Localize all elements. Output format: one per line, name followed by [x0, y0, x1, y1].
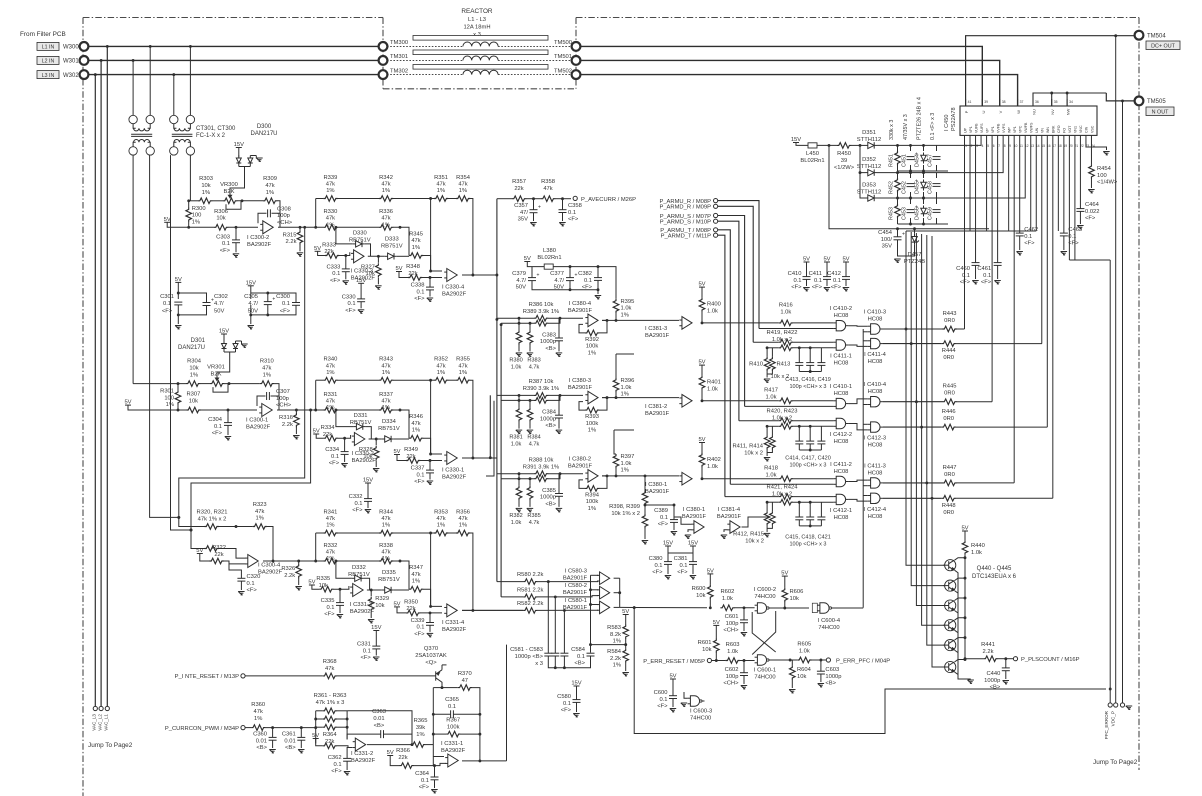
- svg-text:C365: C365: [445, 697, 459, 703]
- svg-text:C389: C389: [654, 508, 668, 514]
- wire bus row1b: [500, 325, 502, 597]
- junction amp2 out ch1: [377, 255, 380, 258]
- wire C580-2 out: [614, 592, 620, 594]
- wire fb mid2 ch3: [337, 560, 379, 562]
- svg-text:R390 3.9k 1%: R390 3.9k 1%: [523, 386, 559, 392]
- svg-text:I C300-1: I C300-1: [246, 418, 268, 424]
- ground R315: [297, 253, 303, 257]
- terminal TM500 circle: [572, 42, 581, 51]
- svg-text:<F>: <F>: [329, 461, 340, 467]
- resistor R441 label: [981, 642, 995, 655]
- capacitor C379: [528, 273, 540, 281]
- wire R9 left ch2: [431, 379, 434, 381]
- junction R9 ch1: [429, 197, 432, 272]
- capacitor C335: [336, 603, 344, 606]
- svg-text:C459: C459: [928, 207, 934, 220]
- resistor R347: [409, 586, 423, 592]
- resistors R387 R390 label: [523, 379, 559, 392]
- svg-text:47k: 47k: [436, 182, 445, 188]
- svg-text:V: V: [998, 110, 1003, 113]
- wire amp3 out ch1: [462, 274, 497, 276]
- svg-text:47k: 47k: [381, 549, 390, 555]
- wire R441 left: [965, 658, 984, 660]
- svg-text:100p <CH> x 3: 100p <CH> x 3: [790, 541, 827, 547]
- svg-text:2SA1037AK: 2SA1037AK: [415, 653, 447, 659]
- junction R9 ch2: [429, 379, 432, 456]
- resistor R360 label: [251, 702, 265, 722]
- wire comp join: [619, 578, 621, 607]
- wire R10 right ch1: [470, 199, 473, 276]
- svg-text:C413, C416, C419: C413, C416, C419: [785, 377, 831, 383]
- svg-text:1.0k: 1.0k: [511, 442, 522, 448]
- supply 5V R350: [393, 601, 400, 607]
- wire rowBb2 g0: [793, 347, 834, 349]
- diode D352: [865, 169, 877, 175]
- svg-text:35V: 35V: [518, 217, 528, 223]
- wire IC450 pin 7 drop: [997, 142, 999, 263]
- and gate C411-1 label: [830, 354, 852, 367]
- ground C382: [595, 296, 601, 300]
- wire g0 c1a-c2a: [849, 325, 868, 328]
- diode D331: [354, 423, 366, 429]
- net label VAC_L1: [104, 714, 109, 731]
- comparator IC381-2 lbl label: [645, 404, 670, 417]
- resistor R453: [895, 204, 901, 218]
- wire R362 l: [316, 718, 323, 720]
- svg-text:R344: R344: [379, 510, 394, 516]
- wire R381 gnd: [518, 422, 520, 429]
- net label DC+ OUT: [1146, 41, 1180, 50]
- resistor R330: [323, 225, 337, 231]
- ground R604: [789, 690, 795, 694]
- svg-text:DAN217U: DAN217U: [250, 131, 277, 137]
- svg-text:D300: D300: [257, 124, 272, 130]
- svg-text:VSC: VSC: [1090, 125, 1094, 133]
- svg-text:9: 9: [1009, 144, 1011, 148]
- svg-text:D301: D301: [191, 338, 206, 344]
- svg-text:C457: C457: [928, 154, 934, 167]
- junction Q442: [964, 597, 967, 600]
- wire fb vert ch1: [316, 199, 324, 228]
- resistor R445 label: [943, 384, 957, 397]
- wire ch3 to R582: [462, 609, 523, 611]
- resistor R329: [368, 597, 374, 611]
- svg-text:74HC00: 74HC00: [754, 594, 775, 600]
- wire fb mid2 ch1: [337, 226, 379, 228]
- svg-text:0R0: 0R0: [943, 416, 954, 422]
- resistor R333 label: [322, 242, 336, 255]
- svg-text:HC08: HC08: [834, 439, 849, 445]
- and gate C411-2: [833, 476, 848, 486]
- capacitor C307: [267, 392, 270, 400]
- wire amp2 out ch1: [368, 255, 385, 257]
- transistor Q370: [436, 665, 447, 688]
- wire Q442 collector: [955, 598, 966, 601]
- inductor bar TM300: [413, 36, 548, 41]
- svg-text:C334: C334: [325, 447, 340, 453]
- svg-text:R300: R300: [192, 206, 206, 212]
- junction C301: [177, 292, 180, 317]
- wire Rc ch2: [178, 409, 186, 411]
- wire R385 top: [529, 479, 531, 486]
- svg-text:R349: R349: [404, 447, 418, 453]
- wire 15V L450: [796, 143, 808, 146]
- wire C460 gnd: [975, 265, 977, 279]
- terminal TM501 circle: [572, 56, 581, 65]
- resistor R601: [714, 639, 720, 653]
- wire Rd2 top g1: [771, 426, 773, 435]
- wire cap trio bus g1: [799, 449, 821, 451]
- svg-text:BA2901F: BA2901F: [645, 489, 670, 495]
- resistor R306: [214, 225, 228, 231]
- resistor R315 label: [283, 232, 297, 245]
- wire dotted TM500: [498, 45, 572, 47]
- svg-text:R383: R383: [527, 357, 540, 363]
- inductor bar TM301: [413, 50, 548, 55]
- resistor R447 label: [943, 465, 957, 478]
- resistor R417: [779, 398, 793, 404]
- junction bus ch2: [489, 456, 492, 459]
- supply 5V R583: [622, 609, 629, 615]
- capacitor C357: [530, 205, 542, 213]
- wire dotted TM501: [498, 59, 572, 61]
- svg-text:<1/2W>: <1/2W>: [834, 165, 855, 171]
- svg-text:D351: D351: [862, 130, 876, 136]
- svg-text:47/: 47/: [520, 210, 528, 216]
- and gate C411-2 label: [830, 462, 852, 475]
- wire grid R452 897.5 b: [897, 192, 899, 198]
- resistor pair R421, R424 b: [779, 499, 793, 505]
- svg-text:10k 1% x 2: 10k 1% x 2: [611, 511, 640, 517]
- svg-text:BA2901F: BA2901F: [563, 590, 588, 596]
- wire R380 gnd: [518, 344, 520, 351]
- wire IC450 pin 20 drop: [1068, 142, 1070, 260]
- ground C602: [741, 686, 747, 690]
- svg-text:R335: R335: [316, 576, 330, 582]
- wire C357 gnd: [533, 213, 535, 221]
- resistors R398 R399 label: [609, 504, 640, 517]
- wire R397 hor: [614, 429, 634, 431]
- wire IC450 pin 10 drop: [1013, 142, 1015, 483]
- svg-text:41: 41: [968, 100, 972, 104]
- svg-text:10k: 10k: [319, 583, 328, 589]
- wire R581 in: [501, 596, 523, 598]
- capacitor C339: [426, 623, 434, 626]
- svg-text:0.01: 0.01: [256, 738, 267, 744]
- wire Rv bot ch2: [177, 404, 179, 410]
- svg-text:0.1: 0.1: [332, 271, 340, 277]
- resistor R384 label: [527, 435, 540, 448]
- svg-text:R605: R605: [797, 642, 811, 648]
- wire 5V L380: [527, 262, 598, 267]
- wire C360 gnd: [272, 740, 274, 748]
- svg-text:C440: C440: [986, 671, 1000, 677]
- and gate C412-2: [833, 418, 848, 428]
- wire R6 ch1: [377, 256, 379, 263]
- svg-text:1%: 1%: [416, 732, 424, 738]
- svg-text:1%: 1%: [382, 222, 390, 228]
- wire dotted TM302: [387, 74, 463, 76]
- svg-text:4: 4: [982, 144, 984, 148]
- comparator C380-2: [585, 470, 598, 483]
- svg-text:R413: R413: [777, 362, 791, 368]
- capacitor C381: [689, 562, 697, 565]
- capacitor C380: [664, 562, 672, 565]
- svg-text:R352: R352: [434, 357, 448, 363]
- svg-text:STTH112: STTH112: [857, 137, 881, 143]
- svg-text:B2K: B2K: [211, 372, 222, 378]
- op-amp C330-3: [351, 250, 364, 263]
- wire C365 l: [433, 713, 450, 715]
- wire pot-ra ch2: [200, 383, 210, 385]
- wire Q443 collector: [955, 618, 966, 621]
- svg-text:39k: 39k: [416, 725, 425, 731]
- wire c320 gnd: [240, 581, 242, 590]
- wire grid R453 910.5 b: [910, 218, 912, 224]
- transistor Q442: [943, 600, 956, 611]
- junction C602: [743, 659, 746, 662]
- svg-text:47k: 47k: [381, 398, 390, 404]
- capacitor C383: [555, 338, 563, 341]
- wire R383 top: [529, 323, 531, 330]
- svg-text:0.1: 0.1: [416, 289, 424, 295]
- svg-text:C603: C603: [825, 667, 839, 673]
- supply 15V D300: [234, 142, 244, 148]
- junction C3 ch3: [339, 588, 342, 591]
- junction amp1out ch3: [297, 560, 317, 563]
- svg-text:D455: D455: [915, 181, 921, 194]
- svg-text:47k: 47k: [326, 363, 335, 369]
- svg-text:R367: R367: [446, 718, 460, 724]
- junction IC331-1 out: [478, 759, 481, 762]
- resistor R342 label: [379, 175, 393, 194]
- svg-text:B2K: B2K: [224, 189, 235, 195]
- resistor R350 label: [404, 599, 418, 612]
- inductor coil TM300: [463, 42, 498, 46]
- svg-text:1%: 1%: [166, 402, 174, 408]
- terminal TM504 label: [1147, 34, 1166, 40]
- wire R583 tap: [591, 644, 626, 646]
- resistor R353 label: [434, 510, 448, 529]
- junction R600: [709, 606, 712, 609]
- svg-text:PS22A78: PS22A78: [951, 107, 957, 131]
- capacitor C381 label: [674, 556, 688, 576]
- supply 15V ch3: [371, 625, 381, 631]
- svg-text:20: 20: [1069, 144, 1073, 148]
- resistor R338 label: [379, 543, 393, 562]
- svg-text:<B>: <B>: [545, 346, 556, 352]
- wire Ro gnd ch3: [298, 578, 300, 585]
- svg-text:R345: R345: [409, 231, 423, 237]
- svg-text:TM505: TM505: [1147, 99, 1166, 105]
- svg-text:R606: R606: [790, 589, 804, 595]
- svg-text:P_ARMD_T / M11P: P_ARMD_T / M11P: [661, 234, 711, 240]
- resistor R345: [409, 253, 423, 259]
- wire Q440 collector: [955, 558, 966, 561]
- text header 47 35V: [903, 114, 909, 140]
- svg-text:C357: C357: [514, 203, 528, 209]
- svg-text:C454: C454: [878, 230, 893, 236]
- svg-text:C303: C303: [216, 234, 230, 240]
- svg-text:1%: 1%: [326, 370, 334, 376]
- wire bus ch2out: [489, 395, 491, 457]
- diode D301 label: [178, 338, 206, 351]
- wire CT300 p2: [149, 46, 151, 115]
- capacitor C363 label: [372, 709, 386, 729]
- ground C384: [556, 430, 562, 434]
- junction Q444: [964, 636, 967, 639]
- wire stack rowb R386: [501, 322, 534, 324]
- wire R396: [615, 392, 617, 398]
- resistor R381 label: [509, 435, 522, 448]
- svg-text:R388 10k: R388 10k: [529, 457, 554, 463]
- wire C440 gnd: [1005, 671, 1007, 679]
- svg-text:3: 3: [976, 144, 978, 148]
- svg-text:<F>: <F>: [1068, 241, 1079, 247]
- supply 5V R600: [707, 568, 714, 574]
- and gate C410-1: [833, 398, 848, 408]
- junction pot ch1: [187, 199, 243, 228]
- wire Rd2 bot g1: [767, 449, 772, 452]
- wire R7 out ch1: [423, 256, 442, 272]
- terminal P_ARMU_R / M08P: [714, 199, 718, 203]
- wire Q443 em: [955, 630, 959, 634]
- supply 5V ch2 input: [124, 400, 131, 406]
- terminal P_ARMD_S / M10P: [714, 219, 718, 223]
- wire VAC_L2 drop: [100, 60, 102, 707]
- junction TM504: [1050, 34, 1117, 94]
- resistor R360: [251, 725, 265, 731]
- svg-text:47k: 47k: [411, 238, 420, 244]
- svg-text:1.0k: 1.0k: [766, 473, 777, 479]
- wire C380 gnd: [667, 564, 669, 574]
- svg-text:R448: R448: [942, 503, 956, 509]
- wire Cin ch2: [227, 410, 229, 423]
- junction D35x: [859, 144, 862, 174]
- capacitor C584 label: [571, 647, 586, 667]
- junction R367: [432, 733, 482, 736]
- op-amp C330-4: [444, 269, 457, 282]
- comparator C580-1: [597, 601, 610, 614]
- svg-text:NU: NU: [1032, 109, 1037, 115]
- potentiometer VR301 label: [207, 365, 225, 378]
- svg-text:TM301: TM301: [390, 54, 408, 60]
- resistor R307 label: [186, 392, 200, 405]
- wire cap trio top g2 0: [798, 502, 800, 517]
- svg-text:VPC: VPC: [1019, 125, 1023, 133]
- wire Q445 em: [955, 672, 959, 676]
- svg-text:+: +: [902, 232, 905, 238]
- wire thr comp2: [591, 589, 599, 591]
- wire stack outb R386: [548, 318, 560, 323]
- zener D454 label: [915, 154, 921, 167]
- svg-text:P_ARMD_S / M10P: P_ARMD_S / M10P: [660, 220, 711, 226]
- svg-text:<F>: <F>: [831, 285, 842, 291]
- svg-text:0R0: 0R0: [944, 472, 955, 478]
- wire C8 ch1: [429, 278, 431, 288]
- svg-text:C601: C601: [725, 614, 739, 620]
- wire R447 out: [957, 482, 1015, 484]
- wire D2-R7 ch1: [397, 255, 409, 257]
- wire 5V R401: [701, 365, 703, 376]
- svg-text:R337: R337: [379, 392, 393, 398]
- svg-text:R320, R321: R320, R321: [197, 510, 228, 516]
- wire grid R452 910.5 b: [910, 192, 912, 198]
- comparator C380-4: [585, 314, 598, 327]
- wire CT301 p2: [189, 46, 191, 115]
- wire IC450 pin 14 drop: [1035, 142, 1037, 231]
- supply 5V R366: [387, 750, 394, 756]
- svg-text:P: P: [964, 110, 969, 113]
- resistor R316 label: [279, 415, 293, 428]
- svg-text:<F>: <F>: [812, 285, 823, 291]
- junction C8 ch2: [429, 459, 432, 462]
- svg-text:R396: R396: [621, 378, 635, 384]
- ground C412: [843, 288, 849, 292]
- wire C602 gnd: [743, 676, 745, 685]
- resistor R451: [895, 151, 901, 165]
- ground C337: [427, 481, 433, 485]
- svg-text:BA2901F: BA2901F: [645, 411, 670, 417]
- terminal P_ARMD_T / M11P: [714, 233, 718, 237]
- svg-text:<F>: <F>: [568, 217, 579, 223]
- svg-text:BA2902F: BA2902F: [442, 627, 467, 633]
- capacitor C364 label: [415, 771, 430, 791]
- wire rowB2 g0: [793, 341, 834, 343]
- svg-text:1: 1: [965, 144, 967, 148]
- op-amp C300-1 label: [246, 418, 271, 431]
- svg-text:<F>: <F>: [220, 248, 231, 254]
- wire C58x bottom: [548, 656, 590, 668]
- junction comp out: [618, 591, 635, 609]
- transformer CT300: [129, 115, 154, 155]
- junction ch3 in: [235, 525, 238, 528]
- resistor R334 label: [321, 425, 336, 438]
- wire R399 gnd: [644, 528, 646, 539]
- capacitor C601: [740, 620, 748, 623]
- ground C383: [556, 353, 562, 357]
- svg-text:VOT: VOT: [1068, 125, 1072, 133]
- svg-text:1%: 1%: [382, 370, 390, 376]
- resistor R602: [720, 605, 734, 611]
- svg-text:I C410-2: I C410-2: [830, 306, 852, 312]
- wire R604 top: [791, 660, 793, 666]
- svg-text:I C330-4: I C330-4: [442, 285, 465, 291]
- wire C361 top: [300, 728, 302, 738]
- wire R361 l: [316, 710, 323, 712]
- wire 5V C411: [826, 262, 828, 277]
- svg-text:I C300-4: I C300-4: [258, 563, 281, 569]
- wire Ro ch2: [295, 410, 297, 413]
- net P_ARMD_T / M11P label: [661, 234, 711, 240]
- resistor R402: [699, 453, 705, 467]
- ground C331: [373, 657, 379, 661]
- wire R5 amp ch1: [339, 252, 350, 255]
- wire R358 out: [555, 198, 571, 200]
- zener D455 label: [915, 181, 921, 194]
- capacitor C335 label: [321, 598, 335, 618]
- svg-text:R339: R339: [323, 175, 337, 181]
- wire D1 out ch2: [366, 427, 372, 439]
- svg-text:C415, C418, C421: C415, C418, C421: [785, 534, 831, 540]
- wire r361 top link: [347, 711, 412, 734]
- ic IC450 PS22A78 body: [960, 106, 1097, 135]
- svg-text:1%: 1%: [266, 190, 274, 196]
- svg-text:RB751V: RB751V: [348, 572, 370, 578]
- svg-text:R310: R310: [260, 359, 274, 365]
- svg-text:UN: UN: [1035, 127, 1039, 133]
- wire C301-C302 top: [178, 293, 206, 303]
